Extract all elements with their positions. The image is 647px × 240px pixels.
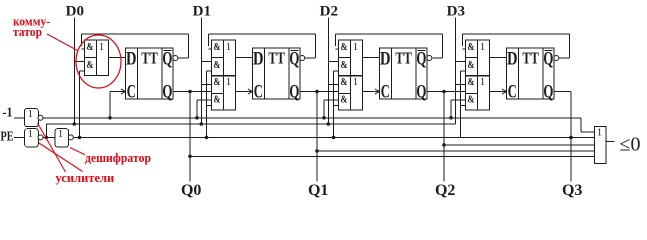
annotation usiliteli callout line 2	[39, 143, 83, 172]
junction D2 riser on PE-inverse bus	[327, 122, 331, 126]
wire -1 bus bend to OR	[581, 118, 594, 132]
junction PE riser stage 2	[332, 136, 336, 140]
junction Q1 branch	[315, 149, 319, 153]
amplifier U2 (PE buffer)	[25, 129, 39, 147]
node D2 input label	[320, 4, 338, 20]
inversion bubble amplifier U1	[38, 115, 43, 120]
wire PE stub into bottom block (stage 2)	[334, 105, 339, 107]
svg-text:&: &	[341, 77, 348, 88]
AND-OR selector block top (stage 1)	[211, 40, 235, 76]
pin label Q (stage 2)	[416, 81, 426, 102]
wire stub into bottom block (stage 2)	[328, 84, 338, 86]
junction Q2 branch	[442, 143, 446, 147]
label & gate 3 (stage 2)	[341, 77, 348, 88]
wire stub into bottom block (stage 3)	[455, 84, 465, 86]
wire PE stub into bottom block (stage 3)	[461, 105, 466, 107]
clock arrow at C (stage 0)	[121, 89, 126, 94]
svg-text:D: D	[507, 49, 518, 70]
pin label Qbar (stage 3)	[543, 48, 553, 69]
svg-text:&: &	[341, 95, 348, 106]
svg-text:1: 1	[353, 77, 358, 88]
AND-OR selector block bottom (stage 3)	[465, 76, 489, 110]
clock arrow at C (stage 3)	[502, 89, 507, 94]
wire Qbar to rail (stage 0)	[81, 34, 188, 58]
node Q0 output label	[181, 182, 201, 199]
svg-text:усилители: усилители	[56, 171, 115, 185]
wire PE riser stage 1	[207, 71, 212, 137]
label TT (stage 3)	[522, 48, 539, 67]
wire PE stub into bottom block (stage 1)	[207, 105, 212, 107]
pin label Qbar (stage 0)	[162, 48, 172, 69]
svg-text:Q: Q	[416, 48, 426, 69]
junction PE riser stage 0	[78, 136, 82, 140]
D flip-flop TT (stage 0)	[125, 48, 172, 99]
svg-text:1: 1	[28, 109, 33, 120]
svg-text:Q1: Q1	[308, 182, 328, 199]
svg-text:D2: D2	[320, 4, 338, 20]
AND-OR selector block top (stage 3)	[465, 40, 489, 76]
wire Q1 branch to OR	[317, 150, 594, 152]
svg-text:1: 1	[58, 129, 63, 140]
D flip-flop TT (stage 2)	[379, 48, 427, 99]
wire clock selector out to C (stage 1)	[236, 91, 253, 93]
svg-text:D: D	[126, 49, 137, 70]
wire D3 stub into top AND (stage 3)	[455, 61, 465, 63]
svg-text:&: &	[214, 77, 221, 88]
svg-text:&: &	[214, 95, 221, 106]
svg-text:D: D	[253, 49, 264, 70]
wire stub into bottom block (stage 1)	[201, 84, 211, 86]
label & gate 1 (stage 3)	[468, 42, 475, 53]
OR gate U4 (borrow <=0)	[594, 127, 606, 164]
pin label Qbar (stage 1)	[289, 48, 299, 69]
wire -1 riser stage 2	[324, 100, 338, 118]
label & gate 2 (stage 2)	[341, 60, 348, 71]
svg-text:Q2: Q2	[435, 182, 455, 199]
node -1 input label	[3, 106, 13, 121]
node Q3 output label	[562, 182, 582, 199]
wire rail stub into top AND (stage 2)	[335, 48, 338, 50]
wire PE bus line C	[73, 136, 594, 138]
wire clock selector out to C (stage 3)	[490, 91, 507, 93]
label TT (stage 0)	[141, 48, 158, 67]
label & gate 2 (stage 1)	[214, 60, 221, 71]
annotation usiliteli callout line 1	[38, 123, 66, 172]
pin label Q (stage 0)	[162, 81, 172, 102]
wire D3 vertical (ends at bus corner)	[454, 18, 456, 125]
pin label D (stage 3)	[507, 49, 518, 70]
svg-text:&: &	[87, 42, 94, 53]
wire Q0 branch to OR	[190, 155, 594, 157]
svg-text:C: C	[254, 81, 263, 102]
svg-text:TT: TT	[141, 48, 158, 67]
junction -1 riser stage 2	[322, 116, 326, 120]
pin label Q (stage 3)	[543, 81, 553, 102]
svg-text:&: &	[468, 95, 475, 106]
pin label C (stage 1)	[254, 81, 263, 102]
annotation kommutator ellipse	[76, 35, 121, 88]
svg-text:Q3: Q3	[562, 182, 582, 199]
svg-text:Q: Q	[289, 48, 299, 69]
wire PE riser stage 3	[461, 71, 466, 137]
clock arrow at C (stage 2)	[375, 89, 380, 94]
node D1 input label	[193, 4, 211, 20]
node D0 input label	[66, 4, 84, 20]
wire D1 vertical to bus	[200, 18, 202, 125]
label OR 2 (stage 1)	[226, 77, 231, 88]
svg-text:1: 1	[480, 77, 485, 88]
wire Q2 drop	[443, 92, 445, 182]
wire Q stage 3	[554, 91, 571, 93]
clock arrow at C (stage 1)	[248, 89, 253, 94]
label TT (stage 1)	[268, 48, 285, 67]
svg-text:&: &	[468, 77, 475, 88]
amplifier U1 (-1 buffer)	[25, 109, 39, 127]
wire rail stub into top AND (stage 0)	[81, 48, 84, 50]
label OR 1 (stage 2)	[353, 42, 358, 53]
wire OR output	[606, 141, 615, 143]
wire PE to amplifier	[14, 136, 25, 138]
inversion bubble Qbar (stage 0)	[173, 56, 178, 61]
wire D2 vertical to bus	[327, 18, 329, 125]
svg-text:Q: Q	[543, 81, 553, 102]
label & gate 3 (stage 1)	[214, 77, 221, 88]
label OR 1 (stage 0)	[99, 42, 104, 53]
label 1 decoder U3	[58, 129, 63, 140]
label & gate 2 (stage 3)	[468, 60, 475, 71]
D flip-flop TT (stage 3)	[506, 48, 554, 99]
wire -1 riser stage 3	[451, 100, 465, 118]
wire clock selector out to C (stage 2)	[363, 91, 380, 93]
svg-text:Q0: Q0	[181, 182, 201, 199]
D flip-flop TT (stage 1)	[252, 48, 300, 99]
svg-text:1: 1	[597, 127, 602, 138]
wire Q (stage 1) to next clock selector	[300, 91, 338, 93]
label OR 2 (stage 3)	[480, 77, 485, 88]
wire D1 stub into top AND (stage 1)	[201, 61, 211, 63]
svg-text:TT: TT	[268, 48, 285, 67]
wire Q1 drop	[316, 92, 318, 182]
wire -1 to amplifier	[14, 117, 25, 119]
pin label D (stage 2)	[380, 49, 391, 70]
svg-text:1: 1	[480, 42, 485, 53]
annotation deshifrator callout line	[70, 148, 85, 155]
node D3 input label	[447, 4, 465, 20]
wire PE-inverse bus line B	[46, 123, 455, 125]
svg-text:PE: PE	[1, 129, 14, 144]
pin label Qbar (stage 2)	[416, 48, 426, 69]
junction D1 riser on PE-inverse bus	[200, 122, 204, 126]
wire Q3 drop	[570, 92, 572, 182]
svg-text:TT: TT	[395, 48, 412, 67]
label & gate 1 (stage 0)	[87, 42, 94, 53]
svg-text:D3: D3	[447, 4, 465, 20]
wire PE riser stage 2	[334, 71, 339, 137]
junction Q0 drop	[188, 90, 192, 94]
label & gate 1 (stage 1)	[214, 42, 221, 53]
svg-text:D: D	[380, 49, 391, 70]
wire Q (stage 0) to next clock selector	[173, 91, 211, 93]
label & gate 2 (stage 0)	[87, 60, 94, 71]
junction PE-inverse branch	[45, 136, 49, 140]
svg-text:D1: D1	[193, 4, 211, 20]
label & gate 3 (stage 3)	[468, 77, 475, 88]
wire Qbar to rail (stage 1)	[208, 34, 315, 58]
svg-text:Q: Q	[162, 48, 172, 69]
svg-text:1: 1	[99, 42, 104, 53]
svg-text:&: &	[341, 42, 348, 53]
svg-text:-1: -1	[3, 106, 13, 121]
svg-text:&: &	[468, 60, 475, 71]
pin label Q (stage 1)	[289, 81, 299, 102]
svg-text:&: &	[341, 60, 348, 71]
svg-text:1: 1	[226, 42, 231, 53]
node Q2 output label	[435, 182, 455, 199]
svg-text:&: &	[87, 60, 94, 71]
label 1 OR U4	[597, 127, 602, 138]
svg-text:Q: Q	[289, 81, 299, 102]
wire clock input stage 0	[110, 92, 125, 118]
inversion bubble decoder U3	[68, 135, 73, 140]
pin label C (stage 0)	[127, 81, 136, 102]
junction -1 riser stage 1	[195, 116, 199, 120]
junction D0 riser on PE-inverse bus	[73, 122, 77, 126]
annotation kommutator text	[13, 15, 50, 40]
wire selector out to D (stage 2)	[363, 57, 380, 59]
svg-text:C: C	[381, 81, 390, 102]
wire PE riser stage 0	[80, 71, 85, 137]
wire PE-inverse riser	[45, 124, 47, 137]
wire Q0 drop	[189, 92, 191, 182]
wire Q2 branch to OR	[444, 144, 594, 146]
annotation kommutator callout line	[47, 34, 78, 51]
wire D2 stub into top AND (stage 2)	[328, 61, 338, 63]
wire D0 vertical to bus	[73, 18, 75, 125]
label 1 amplifier U1	[28, 109, 33, 120]
node Q1 output label	[308, 182, 328, 199]
label & gate 4 (stage 2)	[341, 95, 348, 106]
svg-text:1: 1	[226, 77, 231, 88]
annotation usiliteli text	[56, 171, 115, 185]
svg-text:Q: Q	[416, 81, 426, 102]
wire selector out to D (stage 1)	[236, 57, 253, 59]
junction Q3 on PE bus line	[569, 136, 573, 140]
pin label C (stage 2)	[381, 81, 390, 102]
AND-OR selector block top (stage 0)	[84, 40, 108, 76]
wire rail stub into top AND (stage 1)	[208, 48, 211, 50]
svg-text:&: &	[468, 42, 475, 53]
svg-text:D0: D0	[66, 4, 84, 20]
svg-text:≤0: ≤0	[620, 133, 641, 155]
svg-text:&: &	[214, 60, 221, 71]
wire Q (stage 2) to next clock selector	[427, 91, 465, 93]
pin label D (stage 0)	[126, 49, 137, 70]
label & gate 4 (stage 3)	[468, 95, 475, 106]
label & gate 1 (stage 2)	[341, 42, 348, 53]
inversion bubble Qbar (stage 1)	[300, 56, 305, 61]
label & gate 4 (stage 1)	[214, 95, 221, 106]
pin label D (stage 1)	[253, 49, 264, 70]
wire Qbar to rail (stage 2)	[335, 34, 442, 58]
svg-text:C: C	[127, 81, 136, 102]
svg-text:Q: Q	[543, 48, 553, 69]
node PE input label	[1, 129, 14, 144]
junction Q2 drop	[442, 90, 446, 94]
node <=0 output label	[620, 133, 641, 155]
svg-text:дешифратор: дешифратор	[85, 151, 151, 165]
AND-OR selector block bottom (stage 2)	[338, 76, 362, 110]
label 1 amplifier U2	[28, 129, 33, 140]
junction clock stage 0 on -1 bus	[108, 116, 112, 120]
label OR 1 (stage 1)	[226, 42, 231, 53]
wire PE amp to decoder	[43, 136, 55, 138]
inversion bubble Qbar (stage 3)	[554, 56, 559, 61]
svg-text:1: 1	[353, 42, 358, 53]
wire -1 riser stage 1	[197, 100, 211, 118]
wire selector out to D (stage 3)	[490, 57, 507, 59]
junction -1 riser stage 3	[449, 116, 453, 120]
svg-text:Q: Q	[162, 81, 172, 102]
pin label C (stage 3)	[508, 81, 517, 102]
wire rail stub into top AND (stage 3)	[462, 48, 465, 50]
AND-OR selector block bottom (stage 1)	[211, 76, 235, 110]
svg-text:татор: татор	[13, 25, 42, 39]
wire D0 stub into top AND (stage 0)	[74, 61, 84, 63]
label TT (stage 2)	[395, 48, 412, 67]
decoder U3	[55, 129, 69, 147]
junction Q1 drop	[315, 90, 319, 94]
wire -1 bus line A	[43, 117, 581, 119]
AND-OR selector block top (stage 2)	[338, 40, 362, 76]
svg-text:C: C	[508, 81, 517, 102]
label OR 1 (stage 3)	[480, 42, 485, 53]
svg-text:&: &	[214, 42, 221, 53]
wire Qbar to rail (stage 3)	[462, 34, 569, 58]
junction PE riser stage 1	[205, 136, 209, 140]
junction Q0 branch	[188, 155, 192, 159]
annotation deshifrator text	[85, 151, 151, 165]
inversion bubble amplifier U2	[38, 135, 43, 140]
inversion bubble Qbar (stage 2)	[427, 56, 432, 61]
wire selector out to D (stage 0)	[109, 57, 126, 59]
svg-text:TT: TT	[522, 48, 539, 67]
label OR 2 (stage 2)	[353, 77, 358, 88]
svg-text:1: 1	[28, 129, 33, 140]
